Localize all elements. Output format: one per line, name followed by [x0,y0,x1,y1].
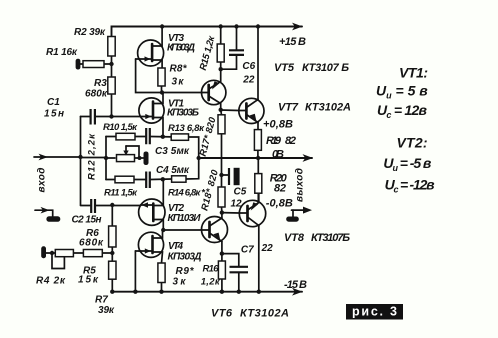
svg-text:R15 1,2к: R15 1,2к [198,34,218,72]
svg-text:R11 1,5к: R11 1,5к [104,188,138,199]
svg-text:3к: 3к [173,277,187,288]
svg-text:Uи = 5 в: Uи = 5 в [376,83,428,101]
svg-text:+15 В: +15 В [279,36,306,48]
svg-text:КП303Д: КП303Д [167,43,195,54]
svg-text:1,2к: 1,2к [201,277,221,288]
svg-text:Uс = 12в: Uс = 12в [377,102,428,120]
svg-text:R12 2,2к: R12 2,2к [87,133,98,180]
svg-text:КТ3107Б: КТ3107Б [311,232,350,244]
svg-text:R9*: R9* [176,266,195,277]
svg-text:VT8: VT8 [284,232,305,244]
svg-text:R2 39к: R2 39к [74,27,106,38]
svg-text:КП103И: КП103И [168,213,202,224]
svg-text:VT5: VT5 [274,62,295,74]
svg-text:82: 82 [285,135,296,147]
svg-text:VT6: VT6 [211,308,233,320]
svg-text:82: 82 [274,183,286,195]
svg-text:R3: R3 [94,78,107,89]
svg-text:выход: выход [294,168,305,202]
svg-text:22: 22 [242,75,255,86]
svg-text:КТ3107 Б: КТ3107 Б [302,62,349,74]
svg-text:КП303Д: КП303Д [168,252,202,263]
svg-text:R13 6,8к: R13 6,8к [168,123,205,134]
svg-text:вход: вход [37,168,48,193]
svg-text:C4 5мк: C4 5мк [156,165,190,176]
svg-text:R8*: R8* [170,64,188,75]
svg-text:C3 5мк: C3 5мк [155,146,190,157]
svg-text:Uс = -12в: Uс = -12в [385,177,436,195]
svg-text:Uи = -5 в: Uи = -5 в [383,155,432,173]
svg-text:-0,8В: -0,8В [266,198,293,210]
svg-text:КТ3102А: КТ3102А [305,102,351,114]
svg-text:12: 12 [231,199,243,210]
svg-text:R16: R16 [203,264,220,275]
svg-text:15н: 15н [44,109,64,120]
svg-text:VT4: VT4 [168,241,183,252]
svg-text:22: 22 [261,243,274,254]
svg-text:R17* 820: R17* 820 [198,115,219,157]
svg-text:3к: 3к [172,77,185,88]
svg-text:680к: 680к [85,89,108,100]
svg-text:VT7: VT7 [278,102,299,114]
svg-text:680к: 680к [79,238,104,249]
svg-text:КП303Б: КП303Б [167,108,199,119]
svg-text:C5: C5 [234,187,247,198]
svg-text:КТ3102А: КТ3102А [240,308,289,320]
svg-text:C6: C6 [242,61,255,72]
svg-text:C2 15н: C2 15н [72,215,102,226]
svg-text:R7: R7 [95,295,108,306]
svg-text:R19: R19 [266,135,282,147]
svg-text:+0,8В: +0,8В [263,119,293,131]
svg-text:0В: 0В [272,149,284,161]
svg-text:39к: 39к [98,305,115,316]
svg-text:R4 2к: R4 2к [36,276,66,287]
svg-text:C7: C7 [241,245,254,256]
svg-text:VT1:: VT1: [399,65,428,81]
svg-text:15к: 15к [78,275,99,286]
svg-text:R14 6,8к *: R14 6,8к * [168,188,206,199]
svg-text:VT2:: VT2: [397,135,428,151]
svg-text:R10 1,5к: R10 1,5к [103,122,138,133]
svg-text:рис. 3: рис. 3 [352,305,397,319]
svg-text:R1 16к: R1 16к [46,47,78,58]
svg-text:-15 В: -15 В [284,279,307,291]
svg-text:C1: C1 [47,97,60,108]
